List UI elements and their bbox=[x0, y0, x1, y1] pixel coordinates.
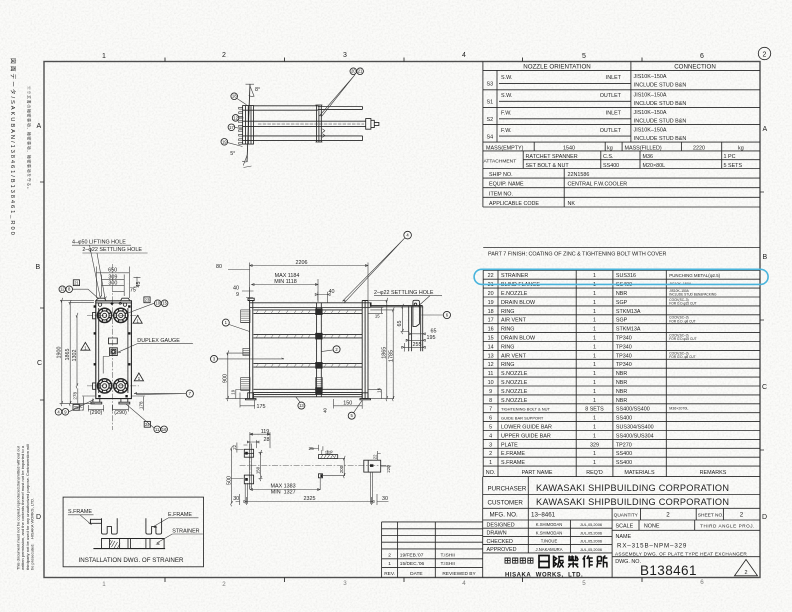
side view dim 40 top bbox=[315, 292, 330, 303]
svg-text:M36: M36 bbox=[643, 154, 654, 160]
assembly top bolt bar bbox=[254, 106, 363, 110]
svg-text:SGP: SGP bbox=[616, 300, 628, 306]
svg-text:(290): (290) bbox=[90, 410, 103, 416]
svg-text:S3: S3 bbox=[487, 82, 494, 88]
svg-text:DESIGNED: DESIGNED bbox=[487, 522, 515, 528]
svg-text:S.FRAME: S.FRAME bbox=[68, 509, 92, 515]
svg-text:PUNCHING METAL(φ2.5): PUNCHING METAL(φ2.5) bbox=[669, 273, 720, 278]
svg-text:NO.: NO. bbox=[486, 470, 496, 476]
svg-text:INCLUDE STUD B&N: INCLUDE STUD B&N bbox=[634, 83, 687, 89]
svg-text:ITEM NO.: ITEM NO. bbox=[489, 191, 513, 197]
svg-text:SS400/SS400: SS400/SS400 bbox=[616, 407, 650, 413]
svg-text:F.W.: F.W. bbox=[501, 111, 511, 117]
nozzle side stubs bbox=[93, 312, 96, 389]
svg-text:APPROVED: APPROVED bbox=[487, 547, 517, 553]
svg-text:SUS304/SS400: SUS304/SS400 bbox=[616, 425, 654, 431]
svg-text:CHECKED: CHECKED bbox=[487, 539, 513, 545]
title block grid bbox=[483, 477, 760, 578]
svg-text:17: 17 bbox=[488, 318, 494, 324]
assembly flange stack bbox=[239, 106, 254, 145]
bottom grid ticks bbox=[165, 578, 642, 583]
bracket dims 65 65 195 255 bbox=[401, 304, 426, 352]
svg-text:TP270: TP270 bbox=[616, 442, 632, 448]
parts list grid bbox=[483, 270, 760, 476]
top plate marks bbox=[110, 302, 113, 305]
svg-text:5: 5 bbox=[582, 53, 586, 60]
svg-text:17: 17 bbox=[229, 125, 234, 130]
svg-text:A: A bbox=[37, 123, 42, 130]
plan left upper block bbox=[244, 444, 253, 490]
svg-text:1 PC: 1 PC bbox=[724, 154, 736, 160]
svg-text:8: 8 bbox=[489, 398, 492, 404]
svg-text:S4: S4 bbox=[487, 134, 494, 140]
plan dim 2325 30 30 bbox=[236, 494, 389, 505]
svg-text:MFG. NO.: MFG. NO. bbox=[490, 512, 518, 519]
left margin japanese note bbox=[27, 86, 32, 192]
svg-text:JIS10K–150A: JIS10K–150A bbox=[634, 110, 667, 116]
frame edge clips bbox=[94, 332, 96, 334]
svg-text:500: 500 bbox=[226, 476, 232, 485]
svg-text:S.NOZZLE: S.NOZZLE bbox=[501, 371, 528, 377]
svg-text:20: 20 bbox=[488, 291, 494, 297]
assembly middle bolt rod bbox=[254, 119, 379, 130]
svg-text:(290): (290) bbox=[114, 410, 127, 416]
svg-text:2: 2 bbox=[666, 512, 670, 519]
side view left dims 900 19 bbox=[226, 351, 250, 402]
svg-text:JUL,05,2006: JUL,05,2006 bbox=[580, 522, 602, 527]
svg-text:1: 1 bbox=[593, 451, 596, 457]
svg-text:22: 22 bbox=[373, 454, 378, 459]
svg-text:5: 5 bbox=[489, 425, 492, 431]
svg-text:MIN 1118: MIN 1118 bbox=[274, 279, 297, 285]
duplex gauge boxes bbox=[109, 338, 118, 344]
left margin disclaimer bbox=[16, 444, 35, 570]
svg-text:12: 12 bbox=[60, 287, 65, 292]
assembly callout 19 bbox=[221, 139, 243, 147]
plan dim MAX1383 MIN1327 bbox=[250, 478, 320, 491]
side view balloon 3 bbox=[211, 355, 285, 362]
svg-text:RING: RING bbox=[501, 344, 514, 350]
STRAINER INSTALLATION BOX bbox=[63, 497, 203, 567]
assembly callout 18 bbox=[231, 93, 247, 105]
svg-text:MASS(EMPTY): MASS(EMPTY) bbox=[486, 145, 524, 151]
hisaka kanji logo bbox=[539, 556, 607, 568]
svg-text:22: 22 bbox=[488, 273, 494, 279]
svg-text:1: 1 bbox=[593, 291, 596, 297]
svg-text:1: 1 bbox=[593, 425, 596, 431]
svg-text:8°: 8° bbox=[255, 87, 260, 93]
svg-text:J.NAKAMURA: J.NAKAMURA bbox=[536, 547, 563, 552]
svg-text:SET BOLT & NUT: SET BOLT & NUT bbox=[526, 163, 570, 169]
svg-text:HISAKA WORKS, LTD.: HISAKA WORKS, LTD. bbox=[505, 572, 583, 578]
svg-text:2–φ22 SETTLING HOLE: 2–φ22 SETTLING HOLE bbox=[82, 247, 142, 253]
svg-text:15: 15 bbox=[162, 301, 167, 306]
svg-text:DWG. NO.: DWG. NO. bbox=[615, 559, 641, 565]
svg-text:22: 22 bbox=[232, 444, 237, 449]
svg-text:T.ISHII: T.ISHII bbox=[441, 553, 455, 559]
side view dim MAX1184 MIN1118 bbox=[252, 279, 319, 302]
svg-text:9: 9 bbox=[236, 292, 239, 298]
front view callout 11 16 bbox=[126, 404, 167, 433]
svg-text:INCLUDE STUD B&N&PACKING: INCLUDE STUD B&N&PACKING bbox=[669, 293, 717, 297]
svg-text:2: 2 bbox=[222, 52, 226, 59]
svg-text:2: 2 bbox=[745, 570, 748, 576]
svg-text:220: 220 bbox=[386, 465, 391, 473]
side view plate pack bars bbox=[254, 310, 363, 397]
svg-text:40: 40 bbox=[233, 286, 239, 292]
svg-text:13–8461: 13–8461 bbox=[531, 511, 556, 518]
svg-text:15: 15 bbox=[488, 336, 494, 342]
svg-text:1: 1 bbox=[593, 309, 596, 315]
kabushiki kaisha small marks bbox=[505, 558, 533, 563]
svg-text:F.W.: F.W. bbox=[501, 128, 511, 134]
svg-text:FOR O.D.φ15 CUT: FOR O.D.φ15 CUT bbox=[669, 337, 696, 341]
svg-text:200: 200 bbox=[339, 465, 344, 473]
svg-text:80: 80 bbox=[216, 264, 222, 270]
svg-text:FOR O.D. φ8 CUT: FOR O.D. φ8 CUT bbox=[669, 355, 695, 359]
svg-text:NBR: NBR bbox=[616, 398, 627, 404]
svg-text:329: 329 bbox=[590, 442, 599, 448]
svg-text:2: 2 bbox=[222, 581, 226, 588]
right zone letters bbox=[762, 126, 768, 521]
svg-text:M20×80L: M20×80L bbox=[643, 163, 666, 169]
svg-text:S.W.: S.W. bbox=[501, 75, 512, 81]
svg-text:1: 1 bbox=[593, 300, 596, 306]
svg-text:DRAIN BLOW: DRAIN BLOW bbox=[501, 300, 536, 306]
revision table grid bbox=[382, 522, 483, 578]
svg-text:1: 1 bbox=[102, 53, 106, 60]
svg-text:65: 65 bbox=[397, 321, 403, 327]
svg-text:SHEET NO.: SHEET NO. bbox=[698, 512, 724, 518]
svg-text:MATERIALS: MATERIALS bbox=[624, 470, 655, 476]
svg-text:REVIEWED BY: REVIEWED BY bbox=[442, 571, 476, 577]
svg-text:C: C bbox=[762, 384, 767, 391]
svg-text:STKM13A: STKM13A bbox=[616, 309, 641, 315]
side view dim 2206 bbox=[250, 263, 368, 301]
svg-text:T.INOUE: T.INOUE bbox=[541, 539, 558, 544]
bracket plate bbox=[413, 300, 420, 326]
right zone ticks bbox=[760, 192, 764, 450]
svg-text:REV.: REV. bbox=[384, 571, 395, 577]
svg-text:DUPLEX GAUGE: DUPLEX GAUGE bbox=[137, 338, 180, 344]
svg-text:75: 75 bbox=[130, 287, 136, 293]
strainer cross-section drawing bbox=[90, 518, 165, 548]
svg-text:CUSTOMER: CUSTOMER bbox=[488, 500, 524, 507]
side view balloon 4 bbox=[343, 231, 412, 302]
svg-text:M36×2070L: M36×2070L bbox=[669, 407, 688, 411]
svg-text:4–φ50 LIFTING HOLE: 4–φ50 LIFTING HOLE bbox=[72, 239, 126, 245]
svg-text:TP340: TP340 bbox=[616, 353, 632, 359]
nozzle circles bbox=[98, 308, 128, 393]
side view feet bbox=[245, 393, 370, 400]
svg-text:STKM13A: STKM13A bbox=[616, 327, 641, 333]
svg-text:22N1586: 22N1586 bbox=[568, 172, 590, 178]
svg-text:65: 65 bbox=[431, 329, 437, 335]
svg-text:21: 21 bbox=[74, 280, 79, 285]
svg-text:MIN 1327: MIN 1327 bbox=[271, 490, 296, 496]
svg-text:DATE: DATE bbox=[410, 571, 422, 577]
svg-text:10: 10 bbox=[155, 301, 160, 306]
side view nozzle stubs hatched bbox=[241, 310, 323, 391]
svg-text:D: D bbox=[36, 514, 41, 521]
svg-text:DRAWN: DRAWN bbox=[487, 531, 507, 537]
svg-text:A: A bbox=[763, 126, 768, 133]
plan dim 200 bbox=[323, 456, 345, 478]
svg-text:4: 4 bbox=[462, 52, 466, 59]
svg-text:7: 7 bbox=[489, 407, 492, 413]
svg-text:RX–315B–NPM–329: RX–315B–NPM–329 bbox=[617, 542, 687, 549]
svg-text:INCLUDE STUD B&N: INCLUDE STUD B&N bbox=[634, 101, 687, 107]
svg-text:1540: 1540 bbox=[563, 145, 575, 151]
svg-text:1785: 1785 bbox=[388, 350, 394, 362]
title block text bbox=[487, 483, 755, 578]
plan dims 22 220 right bbox=[378, 451, 392, 466]
svg-text:4: 4 bbox=[489, 433, 492, 439]
svg-text:1: 1 bbox=[593, 380, 596, 386]
svg-text:RING: RING bbox=[501, 309, 514, 315]
side view S frame plate bbox=[248, 298, 254, 398]
svg-text:4: 4 bbox=[462, 580, 466, 587]
svg-text:INCLUDE STUD B&N: INCLUDE STUD B&N bbox=[634, 136, 687, 142]
svg-text:2: 2 bbox=[763, 51, 767, 58]
svg-text:9: 9 bbox=[489, 389, 492, 395]
assembly callout 12 bbox=[232, 115, 243, 122]
svg-text:REQ'D: REQ'D bbox=[586, 470, 603, 476]
svg-text:JIS10K–150A: JIS10K–150A bbox=[634, 127, 667, 133]
svg-text:19: 19 bbox=[488, 300, 494, 306]
svg-text:23: 23 bbox=[145, 297, 150, 302]
svg-text:S.W.: S.W. bbox=[501, 93, 512, 99]
svg-text:ATTACHMENT: ATTACHMENT bbox=[484, 158, 517, 164]
svg-text:2: 2 bbox=[388, 553, 391, 559]
svg-text:15/DEC.'06: 15/DEC.'06 bbox=[400, 561, 425, 567]
svg-text:INLET: INLET bbox=[606, 111, 622, 117]
svg-text:18: 18 bbox=[232, 94, 237, 99]
plan dims 25 22 78 bbox=[310, 445, 335, 456]
side view balloon 1 bbox=[222, 319, 249, 331]
svg-text:1: 1 bbox=[489, 460, 492, 466]
svg-text:1: 1 bbox=[102, 581, 106, 588]
svg-text:1: 1 bbox=[593, 398, 596, 404]
front view callout 10 15 bbox=[128, 297, 168, 313]
svg-text:19/FEB.'07: 19/FEB.'07 bbox=[400, 553, 424, 559]
nozzle orientation table text bbox=[523, 63, 716, 70]
svg-text:RING: RING bbox=[501, 327, 514, 333]
svg-text:LOWER GUIDE BAR: LOWER GUIDE BAR bbox=[501, 425, 552, 431]
dims (290)(290) 178 bbox=[88, 396, 145, 412]
svg-text:20: 20 bbox=[351, 69, 356, 74]
svg-text:2325: 2325 bbox=[304, 496, 316, 502]
svg-text:175: 175 bbox=[257, 404, 266, 410]
svg-text:INLET: INLET bbox=[606, 75, 622, 81]
svg-text:40: 40 bbox=[329, 289, 335, 295]
svg-text:1: 1 bbox=[593, 362, 596, 368]
dim 650/309/300/75/45 bbox=[96, 267, 140, 299]
svg-text:11: 11 bbox=[488, 371, 494, 377]
svg-text:11: 11 bbox=[155, 427, 160, 432]
bracket balloon 6 bbox=[422, 311, 451, 318]
svg-text:NAME: NAME bbox=[616, 534, 632, 540]
side view bottom dims 175 40 150 bbox=[240, 393, 362, 409]
svg-text:2: 2 bbox=[740, 512, 744, 519]
side view E frame plate bbox=[362, 301, 368, 399]
svg-text:JUL,05,2006: JUL,05,2006 bbox=[580, 547, 602, 552]
svg-text:3: 3 bbox=[343, 580, 347, 587]
assembly callout 17 bbox=[228, 124, 243, 131]
svg-text:6: 6 bbox=[700, 579, 704, 586]
svg-text:1: 1 bbox=[593, 389, 596, 395]
svg-text:1: 1 bbox=[593, 460, 596, 466]
svg-text:45: 45 bbox=[136, 282, 142, 288]
svg-text:PLATE: PLATE bbox=[501, 442, 518, 448]
svg-text:※※文書の機密事項、機密事項、機密事項を守る。: ※※文書の機密事項、機密事項、機密事項を守る。 bbox=[27, 86, 32, 192]
svg-text:1: 1 bbox=[593, 344, 596, 350]
svg-text:B: B bbox=[763, 254, 768, 261]
svg-text:1: 1 bbox=[593, 273, 596, 279]
warning triangles bbox=[133, 315, 142, 323]
svg-text:RING: RING bbox=[501, 362, 514, 368]
svg-text:2220: 2220 bbox=[693, 145, 705, 151]
parts list rows bbox=[486, 273, 727, 476]
lifting holes bbox=[98, 303, 101, 306]
svg-text:PART NAME: PART NAME bbox=[522, 470, 553, 476]
svg-text:AIR VENT: AIR VENT bbox=[501, 318, 527, 324]
svg-text:5°: 5° bbox=[230, 151, 235, 157]
svg-text:2–φ22 SETTLING HOLE: 2–φ22 SETTLING HOLE bbox=[374, 290, 434, 296]
svg-text:1: 1 bbox=[593, 327, 596, 333]
svg-text:19: 19 bbox=[222, 139, 227, 144]
svg-text:THIRD ANGLE PROJ.: THIRD ANGLE PROJ. bbox=[700, 523, 755, 528]
revision table text bbox=[384, 553, 476, 577]
svg-text:INCLUDE STUD B&N: INCLUDE STUD B&N bbox=[634, 118, 687, 124]
svg-text:13: 13 bbox=[488, 353, 494, 359]
plan left lower block bbox=[244, 475, 253, 484]
svg-text:FOR O.D. φ8 CUT: FOR O.D. φ8 CUT bbox=[669, 319, 695, 323]
svg-text:kg: kg bbox=[607, 145, 613, 151]
svg-text:25: 25 bbox=[309, 446, 315, 452]
row 22 strainer blue highlight bbox=[474, 269, 768, 284]
svg-text:14: 14 bbox=[488, 344, 494, 350]
svg-text:2: 2 bbox=[489, 451, 492, 457]
svg-text:D: D bbox=[762, 514, 767, 521]
assembly bottom bolt bar bbox=[254, 136, 363, 141]
bracket rails bbox=[371, 306, 423, 352]
left zone ticks bbox=[40, 182, 44, 400]
svg-text:SS400: SS400 bbox=[603, 163, 619, 169]
assembly flange face line bbox=[247, 84, 250, 162]
side view balloon 2 bbox=[321, 346, 340, 353]
svg-text:PURCHASER: PURCHASER bbox=[488, 486, 527, 493]
sheet border frame bbox=[44, 62, 760, 578]
assembly middle support plates bbox=[316, 105, 325, 142]
svg-text:SS400: SS400 bbox=[616, 451, 632, 457]
bottom grid numbers bbox=[102, 579, 704, 588]
left zone letters bbox=[36, 123, 43, 521]
svg-text:TIGHTENING BOLT & NUT: TIGHTENING BOLT & NUT bbox=[501, 407, 551, 412]
svg-text:NONE: NONE bbox=[644, 524, 660, 530]
svg-text:5: 5 bbox=[582, 580, 586, 587]
top grid numbers bbox=[102, 52, 704, 60]
top grid ticks bbox=[165, 58, 642, 62]
svg-text:119: 119 bbox=[261, 429, 270, 435]
svg-text:図面データ/SAKUBAN/138461/B138461_R: 図面データ/SAKUBAN/138461/B138461_R00 bbox=[9, 58, 17, 237]
plan middle hatched block bbox=[319, 450, 338, 459]
svg-text:SUS316: SUS316 bbox=[616, 273, 636, 279]
svg-text:QUANTITY: QUANTITY bbox=[614, 512, 639, 518]
svg-text:19: 19 bbox=[376, 387, 381, 392]
svg-text:1: 1 bbox=[388, 561, 391, 567]
svg-text:16: 16 bbox=[488, 327, 494, 333]
svg-text:15: 15 bbox=[375, 313, 380, 318]
svg-text:255: 255 bbox=[413, 342, 422, 348]
front view centerlines bbox=[87, 264, 139, 430]
front view callout 12 8 bbox=[59, 280, 99, 299]
svg-text:E.NOZZLE: E.NOZZLE bbox=[501, 291, 528, 297]
svg-text:150: 150 bbox=[343, 401, 352, 407]
svg-text:12: 12 bbox=[233, 115, 238, 120]
front view callout 4 9 bbox=[55, 400, 94, 416]
nozzle orientation table grid bbox=[483, 62, 760, 208]
svg-text:NBR: NBR bbox=[616, 380, 627, 386]
svg-text:900: 900 bbox=[223, 374, 229, 383]
revision triangle 2 bbox=[735, 560, 758, 577]
svg-text:1: 1 bbox=[593, 336, 596, 342]
svg-text:SS400/SUS304: SS400/SUS304 bbox=[616, 433, 654, 439]
svg-text:30: 30 bbox=[382, 496, 388, 502]
assembly callout 20 21 bbox=[319, 68, 363, 117]
svg-text:1865: 1865 bbox=[65, 349, 71, 361]
svg-text:KAWASAKI SHIPBUILDING CORPORAT: KAWASAKI SHIPBUILDING CORPORATION bbox=[536, 483, 729, 493]
svg-text:CENTRAL F.W.COOLER: CENTRAL F.W.COOLER bbox=[568, 182, 628, 188]
svg-text:278: 278 bbox=[72, 392, 77, 400]
svg-text:JUL,05,2006: JUL,05,2006 bbox=[580, 530, 602, 535]
svg-text:150: 150 bbox=[256, 466, 261, 474]
svg-text:C.S.: C.S. bbox=[603, 154, 613, 160]
parts list note bbox=[483, 248, 760, 258]
svg-text:E.FRAME: E.FRAME bbox=[168, 512, 192, 518]
side view middle tie bar bbox=[316, 303, 322, 397]
svg-text:E.FRAME: E.FRAME bbox=[501, 451, 525, 457]
plan centerlines bbox=[240, 443, 389, 489]
svg-text:650: 650 bbox=[108, 268, 117, 274]
svg-text:B: B bbox=[36, 264, 41, 271]
plan right block bbox=[364, 460, 381, 472]
svg-text:KAWASAKI SHIPBUILDING CORPORAT: KAWASAKI SHIPBUILDING CORPORATION bbox=[536, 497, 729, 507]
svg-text:309: 309 bbox=[108, 274, 117, 280]
plan dim 119 28 bbox=[247, 432, 270, 448]
svg-text:OUTLET: OUTLET bbox=[600, 93, 622, 99]
svg-text:30: 30 bbox=[233, 496, 239, 502]
assembly angle dims bbox=[246, 84, 255, 96]
plan extension legs bbox=[245, 472, 373, 504]
svg-text:18: 18 bbox=[488, 309, 494, 315]
svg-text:19: 19 bbox=[231, 389, 236, 394]
svg-text:NOZZLE ORIENTATION: NOZZLE ORIENTATION bbox=[523, 63, 591, 70]
svg-text:6: 6 bbox=[700, 53, 704, 60]
svg-text:TP340: TP340 bbox=[616, 362, 632, 368]
svg-text:APPLICABLE CODE: APPLICABLE CODE bbox=[489, 201, 539, 207]
svg-text:S1: S1 bbox=[487, 100, 494, 106]
svg-text:SS400: SS400 bbox=[616, 416, 632, 422]
svg-text:kg: kg bbox=[738, 145, 744, 151]
svg-text:CONNECTION: CONNECTION bbox=[674, 63, 716, 70]
svg-text:be prosecuted. HISAKA WORKS: be prosecuted. HISAKA WORKS, LTD. bbox=[30, 498, 35, 570]
svg-text:8 SETS: 8 SETS bbox=[585, 407, 604, 413]
svg-text:1302: 1302 bbox=[72, 350, 78, 362]
svg-text:1: 1 bbox=[593, 353, 596, 359]
svg-text:REMARKS: REMARKS bbox=[700, 470, 727, 476]
svg-text:EQUIP. NAME: EQUIP. NAME bbox=[489, 182, 524, 188]
